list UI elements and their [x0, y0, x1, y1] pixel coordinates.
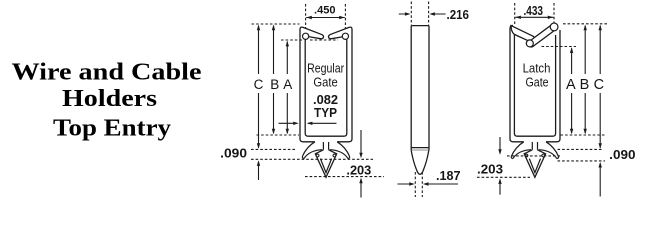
extension line right of .450	[344, 4, 346, 29]
dimension .450 arrows	[306, 17, 345, 19]
svg-text:.187: .187	[436, 169, 461, 183]
side body	[411, 26, 429, 151]
latch arm left	[511, 26, 535, 42]
mount view 3 : barb	[524, 150, 545, 178]
gate pivot hole right	[342, 33, 348, 39]
wall thickness arrow inside	[308, 122, 337, 124]
svg-text:Regular: Regular	[307, 62, 344, 76]
body outline view 3	[510, 25, 513, 141]
.203 upper arrow view1	[360, 130, 362, 155]
latch arm right	[528, 24, 556, 47]
flange bottom extension dashed	[251, 148, 296, 150]
flange bottom extension dashed right	[558, 148, 604, 150]
latch hinge hole bottom	[526, 40, 533, 47]
svg-text:C: C	[594, 77, 604, 93]
dimension line C	[258, 26, 260, 148]
extension line left of .450	[305, 4, 307, 29]
svg-text:.433: .433	[524, 4, 544, 18]
top extension dashed line right	[563, 23, 608, 25]
side flange lines	[411, 148, 429, 151]
body outline view 1	[300, 27, 352, 142]
.203 lower arrow view1	[360, 179, 362, 198]
barb shoulder hole right	[333, 154, 336, 157]
wall thickness arrow outside	[279, 122, 297, 124]
wing tip dashed line	[251, 158, 373, 160]
barb shoulder hole left v3	[525, 154, 528, 157]
floor extension dashed right	[561, 134, 605, 136]
barb tip dashed line v3	[477, 176, 530, 178]
svg-text:.203: .203	[346, 163, 371, 178]
.187 arrows	[398, 183, 459, 185]
svg-text:A: A	[566, 77, 576, 93]
mount view 1 : wings	[302, 142, 349, 159]
svg-text:.203: .203	[477, 161, 503, 176]
dimension .433 arrows	[515, 16, 553, 18]
svg-text:B: B	[270, 77, 279, 92]
svg-text:Gate: Gate	[313, 75, 337, 89]
svg-text:Latch: Latch	[523, 62, 551, 76]
dimension line B	[273, 26, 275, 134]
dimension line B right	[584, 26, 586, 134]
svg-text:A: A	[283, 77, 292, 92]
svg-text:Top Entry: Top Entry	[53, 116, 171, 142]
wing tip dashed line v3 (left, for .203)	[507, 155, 560, 157]
side bullet tip	[411, 150, 429, 174]
svg-text:Holders: Holders	[62, 86, 157, 112]
barb shoulder hole left	[316, 154, 319, 157]
svg-text:TYP: TYP	[314, 106, 337, 120]
extension lines .187	[415, 172, 422, 197]
barb inner chevron v3	[529, 159, 540, 173]
dimension line A	[286, 42, 288, 134]
.203 upper arrow view3	[499, 137, 501, 153]
.090 lower dashed line right	[558, 160, 606, 162]
latch hinge hole top right	[550, 23, 558, 31]
mount view 3 : neck	[532, 142, 537, 150]
body bottom edge segments view 3	[513, 141, 557, 143]
.090 lower arrow	[258, 162, 260, 180]
svg-text:.216: .216	[447, 8, 470, 22]
gate seat extension dashed line	[281, 39, 338, 41]
svg-text:.450: .450	[314, 5, 336, 17]
svg-text:C: C	[254, 77, 264, 92]
.090 lower arrow right	[599, 164, 601, 197]
mount view 1 : neck	[323, 142, 328, 150]
dimension line C right	[599, 26, 601, 148]
svg-text:B: B	[580, 77, 590, 93]
top extension dashed line	[252, 23, 300, 25]
barb inner chevron	[320, 159, 331, 173]
gate pivot hole left	[303, 33, 309, 39]
dimension line A right	[571, 48, 573, 133]
mount view 1 : barb	[315, 150, 336, 178]
extension lines .433	[515, 3, 554, 24]
latch seat extension dashed line	[542, 46, 577, 48]
svg-text:Gate: Gate	[526, 75, 549, 89]
floor extension dashed	[257, 134, 300, 136]
body bottom edge segments view 1	[303, 141, 349, 143]
.203 lower arrow view3	[499, 181, 501, 195]
svg-text:.090: .090	[609, 147, 635, 162]
mount view 3 : wings	[511, 142, 558, 159]
barb tip dashed line	[305, 176, 384, 178]
barb shoulder hole right v3	[542, 154, 545, 157]
svg-text:Wire and Cable: Wire and Cable	[12, 59, 202, 85]
svg-text:.090: .090	[220, 146, 247, 161]
extension lines .216	[411, 2, 428, 26]
svg-text:.082: .082	[313, 93, 338, 107]
.216 arrows	[399, 13, 446, 15]
